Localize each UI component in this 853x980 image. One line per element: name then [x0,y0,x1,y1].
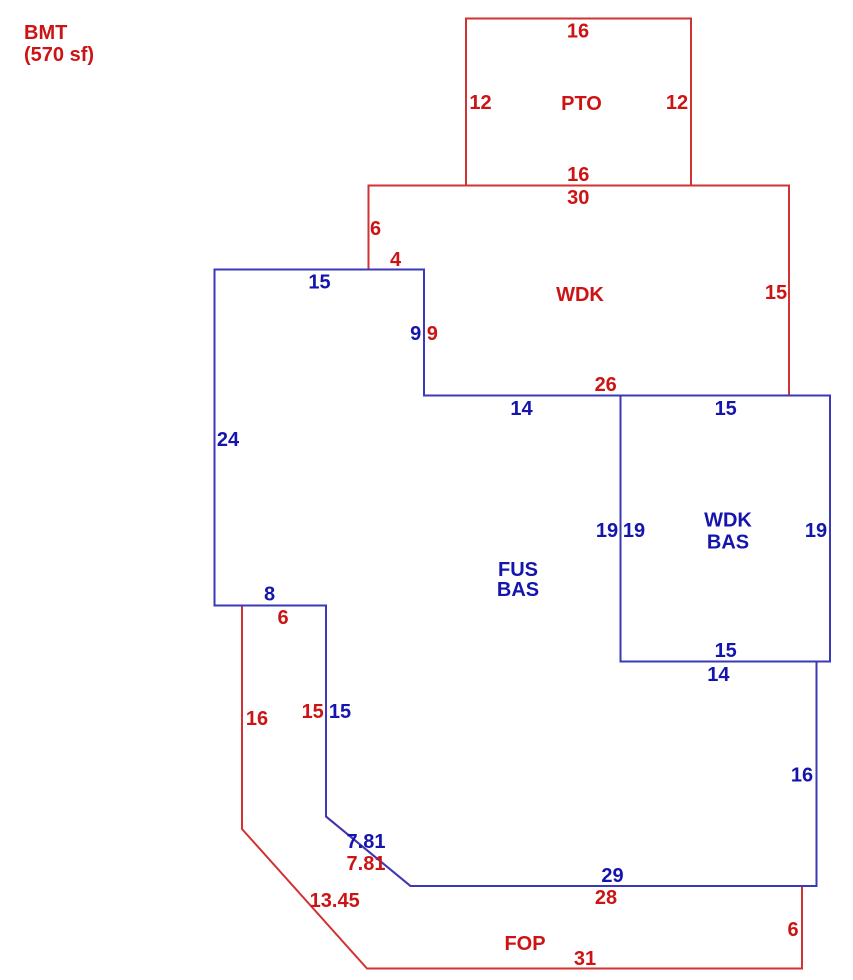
svg-text:8: 8 [264,584,275,606]
svg-text:24: 24 [217,429,240,451]
svg-text:(570 sf): (570 sf) [24,44,94,66]
svg-text:PTO: PTO [561,93,602,115]
svg-text:BAS: BAS [707,532,749,554]
svg-text:15: 15 [715,640,737,662]
svg-text:9: 9 [410,323,421,345]
svg-text:15: 15 [302,701,324,723]
svg-text:6: 6 [277,607,288,629]
FUS BAS outline [215,270,817,887]
svg-text:WDK: WDK [556,284,604,306]
svg-text:BMT: BMT [24,22,67,44]
svg-text:6: 6 [370,218,381,240]
svg-text:FOP: FOP [504,933,545,955]
svg-text:6: 6 [787,919,798,941]
PTO patio outline [466,19,691,186]
svg-text:4: 4 [390,249,402,271]
svg-text:19: 19 [596,520,618,542]
svg-text:12: 12 [469,92,491,114]
svg-text:15: 15 [329,701,351,723]
svg-text:WDK: WDK [704,510,752,532]
svg-text:BAS: BAS [497,579,539,601]
svg-text:15: 15 [715,398,737,420]
svg-text:31: 31 [574,948,596,970]
WDK BAS outline [621,396,831,662]
WDK deck outline [369,186,790,396]
BMT/FOP red outline [242,606,802,969]
svg-text:14: 14 [510,398,533,420]
svg-text:19: 19 [623,520,645,542]
svg-text:29: 29 [601,865,623,887]
svg-text:16: 16 [567,164,589,186]
svg-text:15: 15 [765,282,787,304]
svg-text:12: 12 [666,92,688,114]
svg-text:16: 16 [791,765,813,787]
svg-text:7.81: 7.81 [347,831,386,853]
svg-text:15: 15 [308,272,330,294]
svg-text:7.81: 7.81 [347,853,386,875]
svg-text:19: 19 [805,520,827,542]
svg-text:28: 28 [595,887,617,909]
svg-text:16: 16 [567,21,589,43]
svg-text:14: 14 [707,664,730,686]
svg-text:FUS: FUS [498,559,538,581]
svg-text:16: 16 [246,708,268,730]
svg-text:30: 30 [567,187,589,209]
svg-text:13.45: 13.45 [310,890,360,912]
svg-text:9: 9 [427,323,438,345]
svg-text:26: 26 [595,374,617,396]
